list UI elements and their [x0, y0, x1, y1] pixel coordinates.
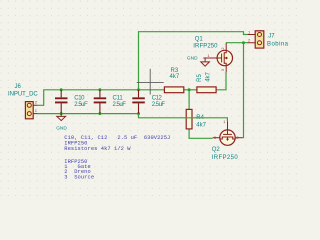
wire C12 bottom to Q2 gate: [139, 114, 228, 122]
junction node C10 bottom: [60, 112, 63, 115]
svg-text:4k7: 4k7: [196, 123, 206, 129]
power GND at Q1 gate: [201, 58, 210, 66]
wire Q1 drain to J7 pin2: [226, 42, 248, 44]
svg-text:3 Source: 3 Source: [64, 174, 94, 180]
svg-text:Q1: Q1: [195, 37, 204, 43]
svg-text:C10: C10: [74, 96, 85, 102]
svg-text:C12: C12: [152, 96, 163, 102]
wire junction to R4 top: [188, 90, 190, 110]
wire R4 bottom to Q2 source: [189, 129, 213, 138]
wire R5 to Q1 source: [216, 72, 226, 89]
transistor Q1: [209, 43, 232, 73]
resistor R3: [164, 87, 183, 93]
svg-text:Resistores 4k7 1/2 W: Resistores 4k7 1/2 W: [64, 146, 131, 152]
connector J6: [25, 102, 37, 119]
transistor Q2: [213, 121, 243, 145]
pin Q2-3 source: [213, 137, 220, 139]
resistor R4: [186, 109, 192, 128]
pin Q2-1 gate: [227, 121, 229, 130]
junction node C10 top: [60, 88, 63, 91]
svg-text:2.5uF: 2.5uF: [152, 102, 166, 108]
ground: [57, 114, 66, 121]
svg-text:Bobina: Bobina: [267, 42, 289, 48]
pin Q2-2 drain: [235, 137, 243, 139]
svg-text:4k7: 4k7: [170, 74, 180, 80]
pin Q1-2 drain: [225, 43, 227, 51]
svg-text:GND: GND: [187, 56, 198, 62]
wire drain junction down to Q2 drain: [242, 43, 245, 138]
junction node R3 R4 R5: [188, 88, 191, 91]
svg-text:J7: J7: [268, 33, 275, 39]
junction node C11 bottom: [98, 112, 101, 115]
pin Q1-3 source: [225, 66, 227, 73]
svg-text:IRFP250: IRFP250: [212, 155, 239, 161]
svg-text:GND: GND: [56, 125, 67, 131]
cursor crosshair: [137, 69, 164, 95]
connector J7: [248, 31, 264, 48]
wire C12 top to J7 pin1: [139, 32, 248, 90]
pin Q1-1 gate: [209, 57, 217, 59]
wire top rail from J6 pin2 to R3: [38, 90, 165, 106]
capacitor C10: [55, 90, 68, 114]
junction node Q1 drain J7: [242, 41, 245, 44]
svg-text:R5: R5: [197, 73, 203, 81]
junction node C12 top: [137, 88, 140, 91]
svg-text:INPUT_DC: INPUT_DC: [8, 91, 38, 97]
capacitor C11: [94, 90, 107, 114]
junction node C12 bottom: [137, 112, 140, 115]
svg-text:IRFP250: IRFP250: [193, 43, 218, 49]
svg-text:2.5uF: 2.5uF: [113, 102, 127, 108]
svg-text:4k7: 4k7: [205, 71, 211, 81]
svg-text:Q2: Q2: [212, 147, 221, 153]
junction node C11 top: [98, 88, 101, 91]
wire bottom rail from J6 pin1 to C12: [38, 113, 139, 115]
capacitor C12: [132, 90, 145, 114]
resistor R5: [197, 87, 216, 93]
wire R3 to R5: [184, 89, 197, 91]
svg-text:2.5uF: 2.5uF: [74, 102, 88, 108]
svg-text:C11: C11: [113, 96, 124, 102]
svg-text:J6: J6: [15, 84, 22, 90]
